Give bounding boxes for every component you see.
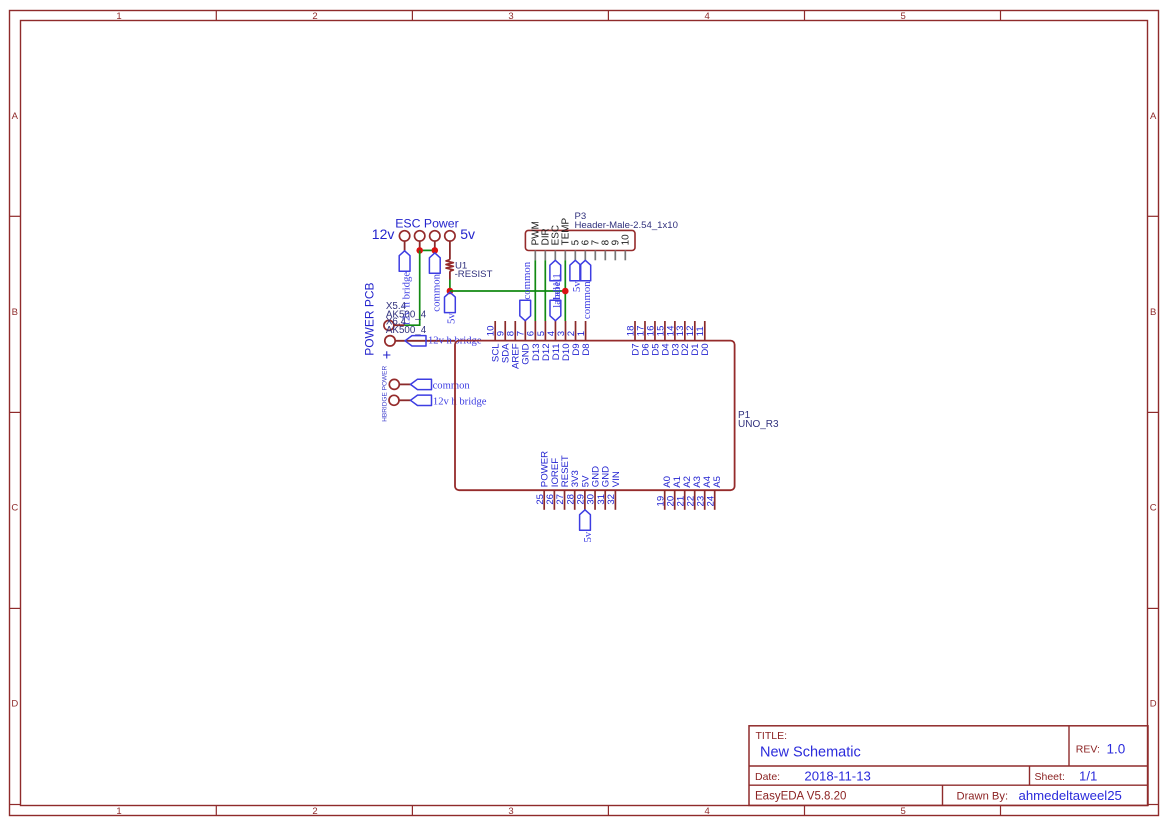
wire HBRIDGE pin2 stub (399, 399, 411, 401)
wire green 5v net horizontal (450, 290, 565, 292)
wire ESC pin1 stub (404, 241, 406, 251)
junction on pin3 (432, 247, 439, 254)
svg-text:D0: D0 (700, 343, 711, 355)
frame ruler row letters left (11, 111, 18, 710)
title block (749, 726, 1148, 806)
svg-text:1/1: 1/1 (1079, 769, 1097, 784)
P1 top pin stubs left group (495, 321, 585, 341)
junction on pin2 (416, 247, 423, 254)
svg-text:1: 1 (576, 331, 587, 336)
svg-text:5: 5 (901, 11, 906, 22)
connector P3 Header-Male-2.54_1x10 body (525, 211, 678, 251)
P1 bottom pin stubs left group (544, 490, 615, 510)
svg-text:POWER PCB: POWER PCB (362, 282, 376, 355)
wire ESC pin4 stub upper (449, 241, 451, 260)
connector ESC Power pin circles (399, 231, 455, 241)
net flag common on HBRIDGE pin1 (411, 379, 471, 391)
connector HBRIDGE POWER pin 1 circle (389, 379, 399, 389)
svg-text:1: 1 (116, 806, 121, 817)
net flag label1 on P1 D11 pin (550, 273, 563, 320)
wire green pin2 to pin3 (420, 249, 435, 251)
svg-text:EasyEDA V5.8.20: EasyEDA V5.8.20 (755, 790, 846, 802)
junction TEMP wire with 5v net (562, 288, 569, 295)
svg-text:TITLE:: TITLE: (756, 730, 788, 742)
P1 top pin names D7-D0 (630, 343, 711, 356)
net flag common on ESC pin3 (429, 253, 442, 312)
svg-text:Drawn By:: Drawn By: (957, 790, 1009, 802)
svg-text:Date:: Date: (755, 771, 780, 783)
P3 pins (gray stubs) (535, 251, 625, 261)
svg-text:5: 5 (901, 806, 906, 817)
svg-text:D: D (11, 699, 18, 710)
svg-text:2: 2 (312, 11, 317, 22)
svg-text:common: common (433, 381, 471, 392)
junction U1 to 5v net (447, 288, 454, 295)
svg-text:D8: D8 (581, 343, 592, 355)
P1 top pin stubs right group (635, 321, 705, 341)
wire green pin2 down to X5.4 (404, 250, 420, 325)
svg-text:ahmedeltaweel25: ahmedeltaweel25 (1019, 788, 1122, 803)
svg-text:10: 10 (621, 234, 632, 245)
connector X5.4 pin circle (384, 320, 394, 330)
svg-text:New Schematic: New Schematic (760, 745, 861, 761)
svg-text:4: 4 (705, 11, 710, 22)
wire X5.4 pin stub (394, 324, 404, 326)
svg-text:B: B (12, 307, 18, 318)
net flag 12v h bridge on ESC pin1 (399, 251, 412, 327)
P3 pin labels PWM DIR ESC TEMP 5-10 (531, 217, 632, 245)
svg-text:HBRIDGE POWER: HBRIDGE POWER (382, 366, 389, 422)
net flag 12v h bridge on X6.4 wire (405, 336, 482, 347)
connector X6.4 pin circle (385, 336, 395, 346)
svg-text:24: 24 (705, 495, 716, 506)
IC P1 UNO_R3 body (455, 341, 779, 491)
wire ESC pin3 stub (434, 241, 436, 251)
net flag 5v on P3 pin5 (570, 260, 583, 292)
connector X5.4 AK500_4 labels (386, 301, 427, 320)
svg-text:32: 32 (606, 494, 617, 505)
svg-text:VIN: VIN (611, 471, 622, 487)
frame ruler column numbers bottom (116, 806, 905, 817)
svg-text:12v: 12v (372, 226, 395, 242)
svg-text:1: 1 (116, 11, 121, 22)
svg-text:2: 2 (312, 806, 317, 817)
svg-text:D: D (1150, 699, 1157, 710)
svg-text:3: 3 (508, 11, 513, 22)
net flag label1 on P3 ESC pin (550, 260, 563, 307)
svg-text:common: common (581, 281, 593, 319)
wire ESC pin2 stub (419, 241, 421, 251)
svg-text:ESC Power: ESC Power (395, 217, 459, 231)
P1 top pin numbers 18-11 (625, 325, 706, 336)
svg-text:A5: A5 (712, 476, 723, 488)
svg-text:1.0: 1.0 (1107, 741, 1126, 756)
svg-text:12v h bridge: 12v h bridge (433, 396, 487, 407)
P1 top pin names SCL SDA AREF GND D13 D12 D11 D10 D9 D8 (491, 343, 592, 369)
svg-text:-RESIST: -RESIST (455, 269, 493, 280)
P1 bottom pin names POWER IOREF RESET 3V3 5V GND GND VIN (540, 451, 622, 487)
svg-text:AK500_4: AK500_4 (386, 325, 427, 336)
svg-text:4: 4 (705, 806, 710, 817)
svg-text:3: 3 (508, 806, 513, 817)
frame ruler row letters right (1150, 111, 1157, 710)
connector HBRIDGE POWER pin 2 circle (389, 395, 399, 405)
net flag common on P3 pin6 (580, 260, 593, 319)
svg-text:5v: 5v (582, 531, 594, 542)
wire green TEMP to D10 (564, 260, 566, 321)
frame ruler column numbers top (116, 11, 905, 22)
svg-text:11: 11 (695, 326, 706, 336)
net flag 5v on P1 5V pin29 (580, 510, 595, 543)
P1 bottom pin names A0-A5 (662, 475, 723, 487)
P1 bottom pin numbers 25-32 (535, 494, 617, 505)
wire green DIR to D12 (544, 260, 546, 321)
svg-text:label1: label1 (551, 273, 563, 299)
net flag 5v below U1 (445, 292, 458, 324)
svg-text:B: B (1150, 307, 1156, 318)
svg-text:A: A (1150, 111, 1157, 122)
wire U1 bottom lead (449, 271, 451, 279)
svg-text:A: A (12, 111, 19, 122)
connector X6.4 AK500_4 labels (386, 317, 427, 336)
svg-text:UNO_R3: UNO_R3 (738, 419, 779, 430)
resistor U1 -RESIST (446, 260, 493, 281)
svg-text:REV:: REV: (1076, 743, 1100, 755)
svg-text:Header-Male-2.54_1x10: Header-Male-2.54_1x10 (575, 220, 678, 231)
svg-text:5v: 5v (446, 313, 458, 324)
svg-text:5v: 5v (460, 226, 475, 242)
svg-text:2018-11-13: 2018-11-13 (804, 769, 870, 784)
net flag 12v h bridge on HBRIDGE pin2 (411, 395, 487, 407)
svg-text:+: + (382, 347, 391, 364)
svg-text:common: common (521, 261, 533, 299)
svg-text:common: common (431, 273, 443, 311)
svg-text:C: C (11, 503, 18, 514)
P1 top pin numbers 10-1 (486, 326, 587, 337)
net flag common on P1 GND pin7 (520, 261, 533, 320)
wire green PWM to D13 (534, 260, 536, 321)
P1 bottom pin numbers 19-24 (655, 495, 716, 506)
wire HBRIDGE pin1 stub (399, 383, 410, 385)
P1 bottom pin stubs right group (665, 490, 715, 510)
svg-text:C: C (1150, 503, 1157, 514)
wire green above junction (449, 280, 451, 292)
svg-text:Sheet:: Sheet: (1035, 771, 1065, 783)
wire X6.4 to P1 left edge (395, 340, 455, 342)
